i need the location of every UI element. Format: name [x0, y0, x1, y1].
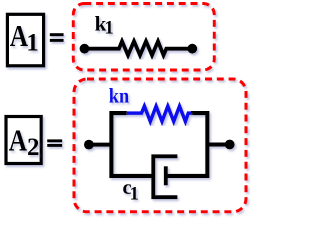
box A2 — [6, 117, 41, 164]
label kn (blue) — [109, 83, 130, 107]
wire node to loop — [89, 143, 112, 147]
svg-text:1: 1 — [130, 184, 139, 204]
label A1 — [10, 18, 39, 57]
wire + spring k1 — [85, 41, 193, 55]
dashpot piston — [164, 166, 168, 185]
box A1 — [7, 14, 43, 66]
dashed red box (row 1) — [73, 4, 214, 71]
node right (row 2) — [225, 140, 235, 150]
equals sign (row 1) — [50, 33, 64, 42]
label k1 — [95, 11, 114, 38]
equals sign (row 2) — [47, 139, 62, 147]
loop right: top-right arm, right vertical, dashpot rod — [166, 113, 208, 176]
node right (row 1) — [187, 44, 197, 54]
svg-text:2: 2 — [27, 134, 40, 161]
svg-text:A: A — [9, 122, 28, 157]
dashed red box (row 2) — [74, 79, 246, 212]
svg-text:1: 1 — [26, 30, 39, 57]
label A2 — [9, 122, 40, 160]
node left (row 1) — [80, 41, 198, 55]
wire loop to right node — [207, 143, 229, 147]
label c1 — [123, 177, 139, 204]
svg-text:1: 1 — [105, 18, 114, 38]
spring kn (blue) — [127, 106, 191, 121]
svg-text:kn: kn — [109, 83, 130, 107]
loop left C: top-left arm, left vertical, bottom-left arm to dashpot — [111, 113, 153, 176]
dashpot cylinder — [153, 156, 177, 197]
node left (row 2) — [84, 113, 235, 197]
